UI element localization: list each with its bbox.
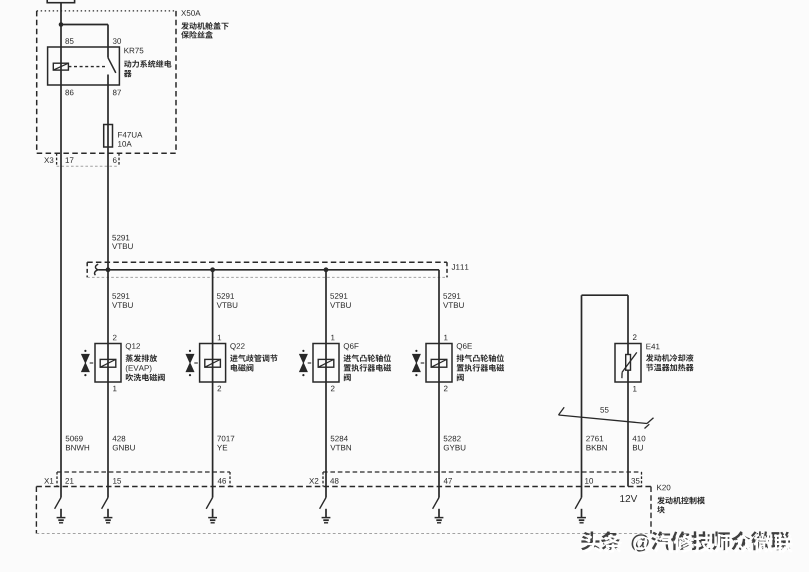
- label KR75 powertrain relay: [124, 48, 172, 77]
- valve symbol of Q12: [82, 350, 94, 376]
- solenoid valve Q22: [200, 344, 226, 383]
- ground (driver to ground inside K20): [206, 487, 217, 523]
- pin numbers of Q6E: [444, 335, 448, 391]
- valve symbol of Q6F: [300, 350, 312, 376]
- ground (driver to ground inside K20): [575, 487, 586, 523]
- wire 5282 GYBU Q6E to K20 pin 47: [438, 382, 440, 487]
- wire 5291 VTBU splice branch to solenoid: [438, 270, 440, 344]
- ground (driver to ground inside K20): [102, 487, 113, 523]
- label wire 428 GNBU: [112, 436, 134, 451]
- label wire 5291 VTBU branch: [112, 293, 133, 308]
- label J111: [452, 264, 469, 270]
- wire top bar to E41 pin 2: [627, 295, 629, 343]
- node: splice junction dots: [106, 267, 329, 272]
- wire loop top bar E41 circuit: [582, 294, 629, 296]
- label wire 5291 VTBU (above splice): [112, 235, 133, 249]
- wire 410 BU E41 to K20 pin 35: [627, 382, 629, 487]
- label wire 5069 BNWH: [66, 436, 89, 451]
- pin numbers of E41: [633, 334, 637, 391]
- relay KR75 box: [48, 47, 120, 85]
- node: junction dot feeding relay contact: [59, 22, 64, 27]
- label wire 7017 YE: [217, 436, 234, 451]
- ECM K20 connector strip X1: [57, 472, 230, 487]
- harness marker 55: [559, 407, 654, 428]
- valve symbol of Q22: [186, 350, 198, 376]
- solenoid valve Q6E: [426, 344, 452, 383]
- ECM K20 module dashed box: [36, 487, 651, 534]
- wire 5291 VTBU fuse to splice J111: [107, 147, 109, 270]
- wire 7017 YE Q22 to K20 pin 46: [212, 382, 214, 487]
- solenoid valve Q6F: [313, 344, 339, 383]
- pin numbers of Q22: [218, 335, 222, 391]
- label wire 5282 GYBU: [444, 436, 466, 451]
- label K20 engine control module: [657, 485, 705, 514]
- label Q6E exhaust cam actuator: [457, 343, 505, 381]
- label wire 5291 VTBU branch: [217, 293, 238, 308]
- label Q6F intake cam actuator: [343, 343, 391, 381]
- label 12V supply at pin 35: [620, 495, 637, 502]
- ground (driver to ground inside K20): [433, 487, 444, 523]
- label Q12 EVAP purge solenoid: [126, 343, 165, 381]
- relay pin labels 85 30 86 87: [65, 38, 121, 95]
- watermark 头条@汽修技师众微联: [581, 531, 793, 554]
- label E41 coolant thermostat heater: [646, 344, 694, 372]
- connector X3 pins 17 and 6: [44, 153, 119, 166]
- label wire 5284 VTBN: [330, 436, 351, 451]
- power feed box (cut off at top): [47, 0, 74, 3]
- label Q22 intake manifold tuning valve: [230, 343, 277, 371]
- label F47UA 10A: [118, 132, 142, 147]
- wire relay 87 to fuse: [107, 85, 109, 147]
- label wire 410 BU: [632, 436, 645, 451]
- label wire 2761 BKBN: [586, 436, 607, 451]
- wire 5291 VTBU splice branch to solenoid: [212, 270, 214, 344]
- valve symbol of Q6E: [413, 350, 425, 376]
- relay KR75 contact: [68, 47, 115, 85]
- K20 pin labels X1 21 15 46 X2 48 47 10 35: [44, 478, 639, 484]
- splice pack J111 dashed box: [87, 262, 447, 277]
- ECM K20 connector strip X2: [323, 472, 642, 487]
- label X50A fuse block: [181, 10, 228, 38]
- heater E41 box: [615, 344, 641, 383]
- wire 428 GNBU Q12 to K20 pin 15: [107, 382, 109, 487]
- wire from power feed to relay coil: [60, 3, 62, 47]
- wire 5291 VTBU splice branch to solenoid: [325, 270, 327, 344]
- wire 2761 BKBN to K20 pin 10: [581, 295, 583, 486]
- ground (driver to ground inside K20): [55, 487, 66, 523]
- fuse F47UA 10A: [104, 125, 113, 148]
- fuse block X50A dashed box: [37, 11, 176, 153]
- pin numbers of Q12: [113, 335, 117, 391]
- splice J111 bus bar: [95, 264, 439, 275]
- solenoid valve Q12: [95, 344, 121, 383]
- relay KR75 coil: [53, 47, 68, 85]
- label wire 5291 VTBU branch: [330, 293, 351, 308]
- pin numbers of Q6F: [331, 335, 335, 391]
- ground (driver to ground inside K20): [320, 487, 331, 523]
- wire 5284 VTBN Q6F to K20 pin 48: [325, 382, 327, 487]
- wire 5069 BNWH from relay 86 to K20 pin 21: [60, 85, 62, 487]
- wire 5291 VTBU splice branch to solenoid: [107, 270, 109, 344]
- label wire 5291 VTBU branch: [443, 293, 464, 308]
- wire branch to relay pin 30: [61, 25, 108, 48]
